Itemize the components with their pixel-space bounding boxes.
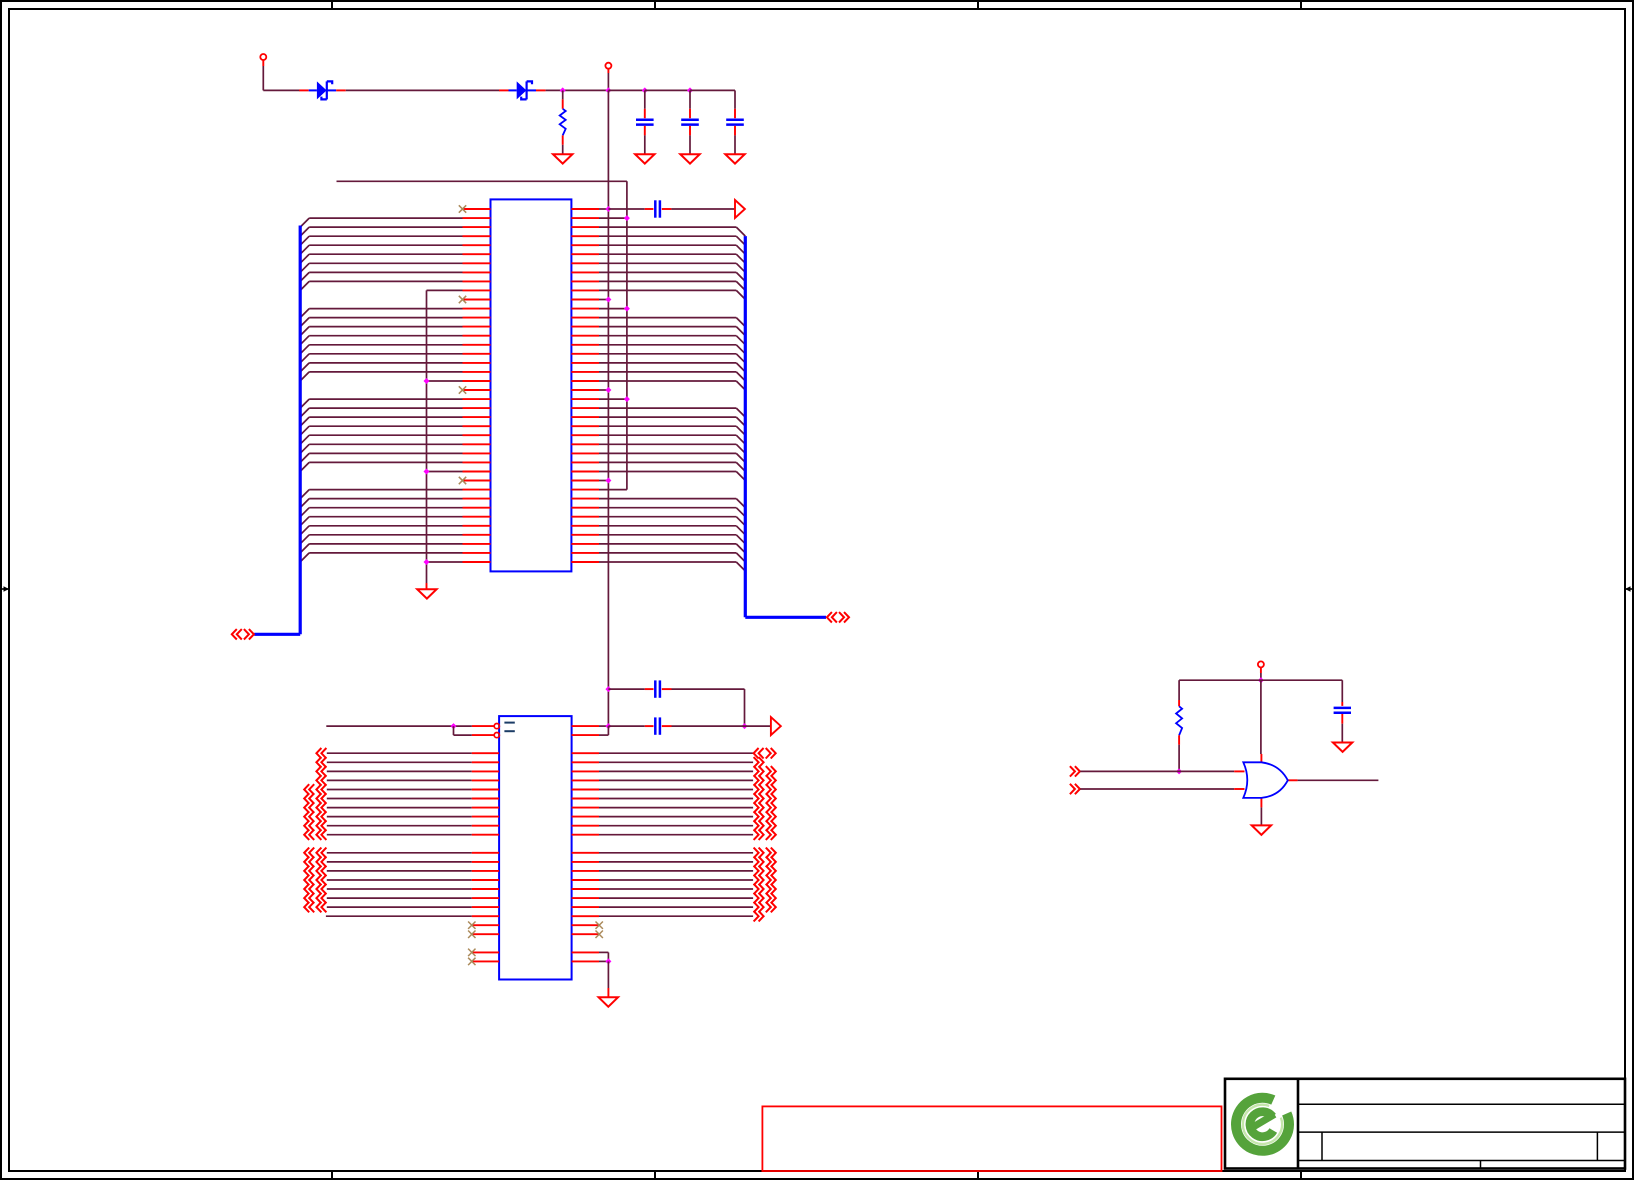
junction — [605, 478, 611, 484]
junction — [605, 387, 611, 393]
wire — [1080, 788, 1234, 790]
OR gate U3 — [1234, 754, 1297, 807]
wire — [263, 66, 299, 90]
wire — [326, 725, 472, 727]
wires U2 right rows — [599, 753, 753, 916]
junction — [642, 87, 648, 93]
junction — [624, 396, 630, 402]
no-connect marks U2 left — [468, 922, 475, 966]
junction — [624, 306, 630, 312]
junction — [451, 723, 457, 729]
wire — [608, 688, 644, 690]
output port — [735, 200, 745, 218]
ground — [680, 154, 699, 163]
input port — [1070, 766, 1075, 776]
capacitor C4 — [645, 200, 672, 217]
zener diode D1 — [299, 81, 346, 99]
junction — [560, 87, 566, 93]
junction — [424, 469, 430, 475]
junction — [605, 723, 611, 729]
wire — [599, 952, 608, 961]
ground — [1252, 825, 1271, 834]
net ports U2 right — [754, 748, 776, 921]
output port — [771, 717, 781, 735]
junction — [424, 559, 430, 565]
zener diode D2 — [499, 81, 546, 99]
U1 left pin stubs — [463, 209, 491, 562]
wire — [690, 89, 735, 91]
ground — [725, 154, 744, 163]
wire — [671, 208, 735, 210]
wire — [599, 726, 608, 735]
wire — [672, 725, 771, 727]
junction — [742, 723, 748, 729]
junction — [1258, 677, 1264, 683]
wire — [1178, 745, 1180, 772]
wire — [426, 583, 428, 589]
IC U2 — [499, 716, 571, 979]
wires U1 right to bus — [599, 227, 745, 571]
wires U1 right to V1 — [599, 209, 608, 481]
power port P2 — [605, 63, 611, 73]
wire — [546, 89, 609, 91]
no-connect marks U2 right — [596, 922, 603, 939]
capacitor C2 — [681, 90, 699, 154]
power port P3 — [1258, 661, 1264, 673]
wire — [1260, 673, 1262, 680]
wire — [672, 689, 745, 726]
wires U2 left — [326, 753, 472, 916]
wire floating net — [337, 180, 627, 182]
wire — [346, 89, 500, 91]
bus B1 — [254, 226, 300, 635]
input port — [1070, 784, 1075, 794]
ground — [1333, 743, 1352, 752]
wire — [1080, 770, 1234, 772]
wire — [607, 73, 609, 90]
IC U1 — [491, 199, 572, 571]
wire net V2 — [626, 181, 628, 489]
annotation frame — [762, 1106, 1221, 1171]
junction — [605, 686, 611, 692]
bus B2 — [745, 236, 826, 617]
junction — [1176, 768, 1182, 774]
junction — [605, 206, 611, 212]
wire — [645, 89, 690, 91]
resistor R1 — [560, 90, 566, 154]
U1 right pin stubs — [571, 209, 599, 562]
U2 left pin stubs — [472, 753, 499, 961]
capacitor C1 — [636, 90, 654, 154]
wire — [454, 726, 472, 735]
wires U1 left gnd net — [427, 290, 463, 583]
junction — [605, 958, 611, 964]
capacitor C3 — [726, 90, 744, 154]
no-connect marks U1 left — [459, 205, 466, 484]
wire — [1260, 807, 1262, 825]
bus port — [232, 629, 254, 639]
wire — [1298, 779, 1379, 781]
wire — [608, 725, 644, 727]
capacitor C7 — [1334, 702, 1351, 743]
U2 clock marks — [504, 723, 514, 732]
U2 right pin stubs — [572, 726, 599, 961]
ground — [417, 589, 436, 598]
junction — [424, 378, 430, 384]
U2 pin 2 (inverted) — [472, 733, 500, 738]
wires U1 right to V2 — [599, 218, 627, 490]
junction — [605, 297, 611, 303]
junction — [687, 87, 693, 93]
wire — [1179, 680, 1342, 702]
ground — [599, 997, 618, 1006]
wire — [607, 961, 609, 997]
power port P1 — [260, 54, 266, 66]
capacitor C6 — [645, 717, 672, 734]
wire — [608, 208, 644, 210]
wires U1 left to bus — [300, 218, 462, 562]
ground — [553, 154, 572, 163]
wire — [1260, 680, 1262, 754]
wire — [599, 960, 608, 962]
net ports U2 left — [304, 748, 326, 912]
bus port — [827, 612, 849, 622]
U2 pin 1 (inverted) — [472, 724, 500, 729]
capacitor C5 — [645, 680, 672, 697]
junction — [624, 215, 630, 221]
wire — [599, 725, 608, 727]
junction — [605, 87, 611, 93]
ground — [635, 154, 654, 163]
resistor R2 — [1176, 700, 1182, 745]
wire — [608, 89, 644, 91]
wire net V1 — [607, 90, 609, 726]
